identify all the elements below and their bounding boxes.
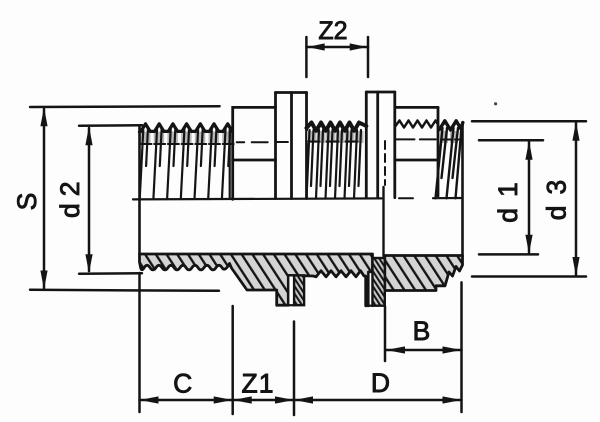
left thread flank lines: [140, 130, 230, 200]
svg-text:d3: d3: [541, 169, 571, 220]
svg-text:S: S: [12, 193, 42, 211]
left collar pitch dashes: [237, 141, 268, 143]
dimension S extension lines: [30, 105, 220, 108]
center thread flank lines: [307, 130, 362, 199]
right collar female thread zigzag: [396, 121, 439, 128]
right collar: [395, 106, 438, 109]
svg-text:C: C: [173, 368, 192, 398]
bore step vertical: [382, 187, 384, 256]
body left edge: [138, 127, 141, 254]
slot in section right tab: [369, 272, 373, 306]
svg-text:Z1: Z1: [242, 368, 275, 398]
dense-hatched insert bar right: [373, 258, 385, 306]
body right edge: [461, 124, 464, 256]
left external thread crest outline: [140, 124, 233, 132]
left external thread shading: [140, 132, 233, 145]
right thread flank lines: [436, 128, 462, 198]
dimension S line: [43, 109, 46, 288]
dimension Z2 extension lines: [305, 37, 308, 77]
center thread pitch dashes: [308, 141, 358, 143]
dense-hatched insert bar left: [294, 275, 304, 305]
dimension d2 extension lines: [79, 124, 142, 127]
dimension d2 line: [88, 128, 91, 271]
svg-text:d2: d2: [55, 175, 85, 218]
dimension d3 line: [575, 123, 578, 275]
dimension B extension line: [384, 307, 387, 362]
left thread pitch dashes: [141, 143, 234, 145]
dimension Z2 line: [306, 46, 368, 49]
left collar: [233, 107, 276, 199]
right thread pitch dashes: [441, 139, 462, 141]
dimension B line: [386, 349, 462, 352]
svg-text:B: B: [413, 316, 431, 346]
dimension d3 extension lines: [472, 120, 586, 123]
slot in section left tab: [288, 275, 294, 305]
dimension C / Z1 / D line: [140, 399, 462, 402]
dimension d1 line: [528, 142, 531, 253]
svg-text:d1: d1: [493, 171, 523, 222]
section hatched band (right wall): [385, 256, 463, 291]
right external thread shading: [440, 131, 464, 143]
scan speck: [494, 102, 497, 105]
hidden line in right block: [384, 141, 386, 185]
thread root line (half section boundary): [133, 198, 382, 199]
section hatched band (left and middle wall): [140, 254, 373, 306]
right external thread crest outline: [440, 121, 463, 130]
right lock ring block: [366, 91, 395, 94]
center external thread crest outline: [307, 123, 367, 131]
svg-text:D: D: [371, 368, 390, 398]
left lock ring block: [276, 91, 307, 94]
center external thread shading: [307, 131, 364, 143]
left block pitch dash: [276, 141, 288, 143]
left thread end vertical: [229, 129, 231, 199]
svg-text:Z2: Z2: [318, 17, 347, 45]
dimension d1 extension lines: [479, 139, 543, 142]
bottom dimension extension lines: [138, 273, 141, 412]
right collar pitch dashes: [396, 138, 435, 140]
